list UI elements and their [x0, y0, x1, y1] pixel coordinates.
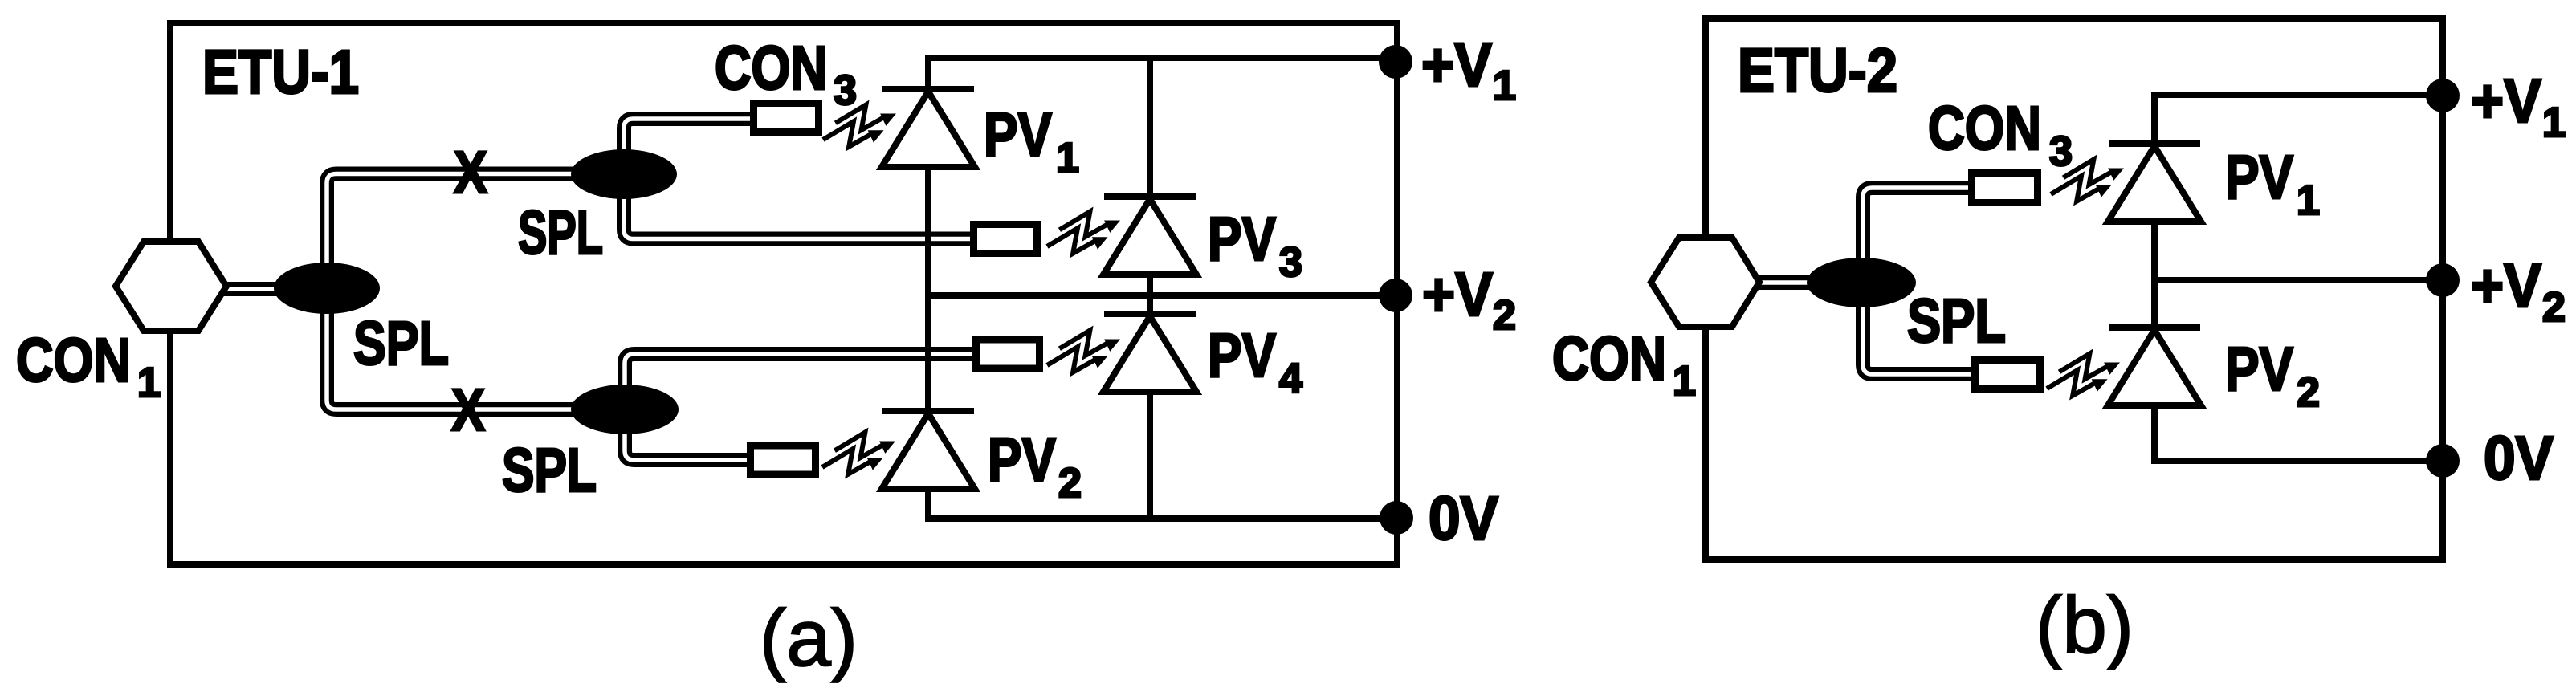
svg-text:3: 3 — [2049, 128, 2073, 175]
fiber SPL to PV2 coupler (b) — [1863, 283, 1976, 374]
label CON3 (b) — [1928, 94, 2073, 175]
light arrow to PV1 — [823, 105, 896, 147]
svg-text:PV: PV — [984, 100, 1052, 169]
svg-text:ETU-2: ETU-2 — [1738, 36, 1897, 105]
svg-text:ETU-1: ETU-1 — [202, 38, 359, 107]
wire PV3 top stub — [1147, 55, 1153, 198]
coupler PV4 feed — [976, 340, 1040, 368]
svg-text:0V: 0V — [2484, 424, 2554, 493]
svg-text:SPL: SPL — [518, 198, 603, 267]
PV2 cell (b) — [2108, 328, 2201, 405]
wire PV4 bottom stub — [1147, 392, 1153, 519]
svg-text:CON: CON — [16, 326, 131, 395]
svg-text:+V: +V — [1422, 260, 1493, 329]
wire PV1 bottom to PV2 top — [925, 167, 931, 411]
svg-text:SPL: SPL — [1907, 287, 2006, 356]
svg-text:4: 4 — [1279, 356, 1302, 402]
wire PV1 top stub — [925, 55, 931, 91]
svg-text:SPL: SPL — [353, 309, 449, 378]
node +V1 terminal dot — [1379, 45, 1412, 79]
wire 0V bus (b) — [2151, 458, 2443, 464]
PV1 cell — [882, 89, 975, 167]
fiber SPL to CON3 (b) — [1863, 188, 1973, 283]
wire +V1 bus (b) — [2151, 92, 2443, 98]
svg-text:0V: 0V — [1429, 484, 1498, 553]
svg-text:(b): (b) — [2036, 580, 2134, 670]
wire PV2 bottom stub — [925, 489, 931, 522]
label +V2 — [1422, 260, 1516, 339]
svg-text:1: 1 — [137, 360, 161, 406]
coupler CON3 — [754, 104, 819, 132]
svg-text:+V: +V — [2471, 251, 2541, 320]
svg-text:1: 1 — [1493, 63, 1516, 109]
svg-text:1: 1 — [2297, 177, 2320, 224]
label PV2 (b) — [2225, 335, 2320, 416]
svg-text:1: 1 — [2542, 100, 2566, 146]
ETU-2 enclosure box — [1706, 18, 2443, 560]
svg-text:2: 2 — [2297, 369, 2320, 416]
ETU-1 enclosure box — [170, 23, 1397, 564]
svg-text:PV: PV — [1208, 321, 1276, 390]
node 0V terminal dot — [1380, 501, 1413, 535]
svg-text:1: 1 — [1056, 135, 1079, 181]
svg-text:CON: CON — [715, 34, 827, 103]
coupler PV3 feed — [974, 225, 1037, 254]
wire +V2 bus — [925, 292, 1397, 299]
wire PV1 top stub (b) — [2151, 92, 2158, 145]
wire PV2 bottom stub (b) — [2151, 405, 2158, 461]
svg-text:PV: PV — [1208, 205, 1276, 274]
svg-text:X: X — [454, 139, 487, 206]
light arrow to PV2 (b) — [2047, 354, 2120, 396]
light arrow to PV2 — [822, 433, 895, 474]
svg-text:2: 2 — [2542, 284, 2566, 331]
svg-text:PV: PV — [2225, 335, 2293, 404]
splitter SPL lower — [571, 385, 679, 434]
node +V2 terminal dot — [1379, 279, 1412, 312]
label PV3 — [1208, 205, 1302, 286]
label PV1 (b) — [2225, 143, 2320, 224]
label +V2 (b) — [2471, 251, 2566, 331]
fiber lower SPL to PV2 coupler — [625, 409, 752, 460]
svg-text:2: 2 — [1493, 292, 1516, 339]
coupler CON3 (b) — [1972, 173, 2038, 203]
label CON3 — [715, 34, 857, 114]
label CON1 (b) — [1552, 324, 1696, 405]
fiber lower SPL to PV4 coupler — [625, 354, 977, 409]
splitter SPL upper — [571, 149, 677, 199]
wire +V1 bus — [925, 55, 1397, 61]
wire PV3 bottom to PV4 top — [1147, 275, 1153, 315]
svg-text:PV: PV — [2225, 143, 2293, 212]
fiber CON1 to SPL — [222, 282, 327, 296]
wire 0V bus — [925, 515, 1397, 522]
node +V2 terminal dot (b) — [2426, 263, 2460, 297]
coupler PV2 feed (b) — [1975, 360, 2040, 389]
fiber SPL to upper SPL — [327, 174, 624, 289]
svg-text:3: 3 — [834, 67, 857, 114]
light arrow to PV1 (b) — [2051, 160, 2124, 201]
node 0V terminal dot (b) — [2426, 444, 2460, 478]
svg-text:3: 3 — [1279, 239, 1302, 286]
coupler PV2 feed — [751, 446, 816, 474]
svg-text:(a): (a) — [760, 593, 858, 683]
svg-text:1: 1 — [1673, 358, 1696, 405]
fiber CON1 to SPL (b) — [1757, 275, 1861, 290]
node +V1 terminal dot (b) — [2426, 79, 2460, 112]
wire PV1 bottom to PV2 top (b) — [2151, 222, 2158, 329]
svg-text:CON: CON — [1928, 94, 2041, 163]
splitter SPL input — [274, 263, 380, 314]
label CON1 — [16, 326, 161, 406]
fiber SPL to lower SPL — [327, 288, 625, 409]
label PV4 — [1208, 321, 1302, 402]
svg-text:PV: PV — [988, 425, 1056, 495]
svg-text:+V: +V — [2471, 67, 2541, 136]
PV4 cell — [1103, 314, 1196, 392]
PV1 cell (b) — [2108, 144, 2201, 222]
label PV1 — [984, 100, 1079, 181]
svg-text:+V: +V — [1421, 31, 1492, 100]
fiber upper SPL to CON3 — [624, 119, 755, 174]
fiber upper SPL to PV3 coupler — [624, 174, 975, 239]
svg-text:SPL: SPL — [502, 436, 597, 505]
connector CON1 hexagon — [116, 242, 226, 331]
svg-text:CON: CON — [1552, 324, 1666, 393]
label +V1 — [1421, 31, 1516, 109]
PV2 cell — [882, 411, 975, 489]
wire +V2 bus (b) — [2151, 277, 2443, 283]
label PV2 — [988, 425, 1082, 507]
PV3 cell — [1103, 197, 1196, 275]
svg-text:2: 2 — [1058, 460, 1082, 507]
light arrow to PV3 — [1047, 212, 1120, 254]
label +V1 (b) — [2471, 67, 2566, 146]
splitter SPL (b) — [1807, 258, 1916, 307]
light arrow to PV4 — [1047, 331, 1120, 372]
svg-text:X: X — [451, 377, 485, 443]
connector CON1 hexagon (b) — [1651, 238, 1759, 327]
